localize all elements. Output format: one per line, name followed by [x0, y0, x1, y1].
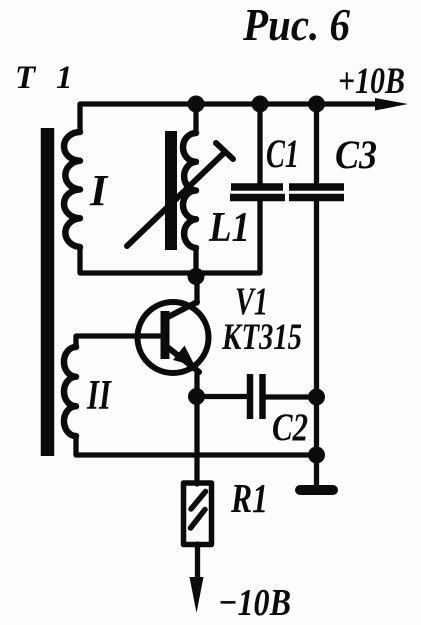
- resistor R1 slash 1: [191, 492, 206, 510]
- svg-text:+10В: +10В: [338, 61, 405, 102]
- transformer T1 winding II: [64, 347, 76, 436]
- transistor V1 emitter arrowhead: [173, 346, 195, 367]
- wire L1 top lead: [193, 104, 198, 133]
- wire base lead / winding II top: [76, 336, 161, 347]
- capacitor C2 plates: [247, 374, 254, 419]
- inductor L1 coil: [183, 133, 196, 248]
- node dot emitter/C2: [188, 388, 205, 405]
- capacitor C1 top lead: [257, 104, 262, 183]
- svg-text:II: II: [86, 373, 112, 419]
- inductor L1 core bar: [165, 131, 177, 250]
- node dot top rail C3: [308, 96, 325, 113]
- wire R1 to -10V: [195, 544, 200, 582]
- svg-text:КТ315: КТ315: [221, 317, 302, 358]
- svg-text:−10В: −10В: [218, 582, 291, 624]
- capacitor C1 plates: [231, 183, 283, 191]
- wire C2 right lead: [266, 394, 317, 399]
- node dot top rail C1: [252, 96, 269, 113]
- svg-text:С1: С1: [266, 131, 299, 176]
- wire emitter to R1: [194, 374, 199, 484]
- wire collector lead: [194, 277, 199, 303]
- svg-text:Рис. 6: Рис. 6: [242, 0, 350, 50]
- capacitor C3 top lead: [314, 104, 319, 183]
- ground stem: [314, 455, 319, 486]
- node dot top rail L1: [188, 96, 205, 113]
- transistor V1 emitter stroke: [166, 346, 199, 372]
- transistor V1 base bar: [161, 311, 170, 359]
- transformer T1 core: [41, 128, 55, 456]
- resistor R1 slash 2: [191, 510, 206, 529]
- svg-text:1: 1: [56, 60, 73, 96]
- resistor R1 body: [184, 483, 212, 545]
- svg-text:L1: L1: [208, 205, 250, 251]
- node dot C2 right rail: [308, 389, 325, 406]
- wire L1 bottom lead to node: [193, 248, 198, 276]
- -10V arrowhead: [190, 577, 204, 613]
- transistor V1 circle: [138, 302, 209, 373]
- wire C3 bottom / right rail: [314, 201, 319, 455]
- wire emitter node to C2: [197, 394, 248, 399]
- transistor V1 collector stroke: [166, 302, 197, 318]
- wire top rail +10V: [80, 104, 378, 132]
- wire +10V arrowhead: [375, 98, 408, 111]
- L1 adjustment arrow: [127, 152, 225, 246]
- svg-text:Т: Т: [15, 60, 37, 96]
- svg-text:R1: R1: [230, 475, 268, 521]
- wire winding I bottom to C1 bottom: [80, 201, 260, 273]
- wire winding II bottom rail: [76, 436, 317, 455]
- transformer T1 winding I: [64, 132, 80, 247]
- node dot ground rail: [308, 447, 325, 464]
- svg-text:С3: С3: [335, 132, 377, 177]
- ground bar: [300, 485, 333, 495]
- capacitor C3 plates: [289, 183, 344, 191]
- node dot collector/L1/C1: [188, 268, 205, 285]
- svg-text:I: I: [89, 166, 109, 215]
- svg-text:С2: С2: [272, 406, 308, 449]
